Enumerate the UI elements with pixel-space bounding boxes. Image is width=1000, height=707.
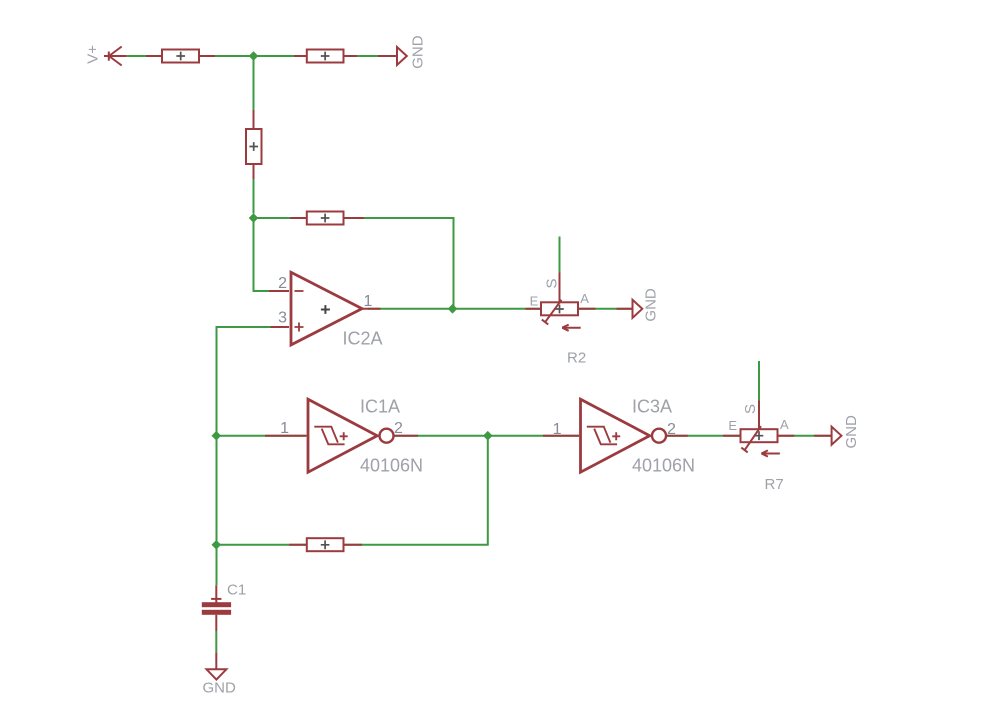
svg-text:40106N: 40106N: [360, 456, 423, 476]
svg-text:3: 3: [278, 310, 287, 327]
svg-text:S: S: [543, 278, 560, 288]
svg-text:IC1A: IC1A: [360, 397, 400, 417]
svg-text:2: 2: [394, 420, 403, 437]
svg-text:GND: GND: [843, 415, 860, 449]
svg-text:1: 1: [364, 293, 373, 310]
svg-text:2: 2: [278, 275, 287, 292]
svg-text:GND: GND: [410, 35, 427, 69]
svg-text:2: 2: [667, 421, 676, 438]
svg-text:R2: R2: [567, 350, 586, 367]
svg-text:A: A: [580, 291, 589, 306]
svg-text:E: E: [728, 418, 737, 433]
svg-text:1: 1: [553, 421, 562, 438]
svg-text:IC2A: IC2A: [343, 329, 383, 349]
svg-text:A: A: [780, 417, 789, 432]
svg-text:40106N: 40106N: [632, 456, 695, 476]
svg-text:S: S: [742, 404, 759, 414]
svg-text:E: E: [530, 294, 539, 309]
svg-text:C1: C1: [227, 582, 246, 599]
svg-text:GND: GND: [643, 288, 660, 322]
svg-text:R7: R7: [765, 476, 784, 493]
svg-text:V+: V+: [85, 45, 102, 64]
svg-text:IC3A: IC3A: [632, 397, 672, 417]
svg-text:GND: GND: [203, 680, 237, 697]
svg-text:1: 1: [280, 420, 289, 437]
